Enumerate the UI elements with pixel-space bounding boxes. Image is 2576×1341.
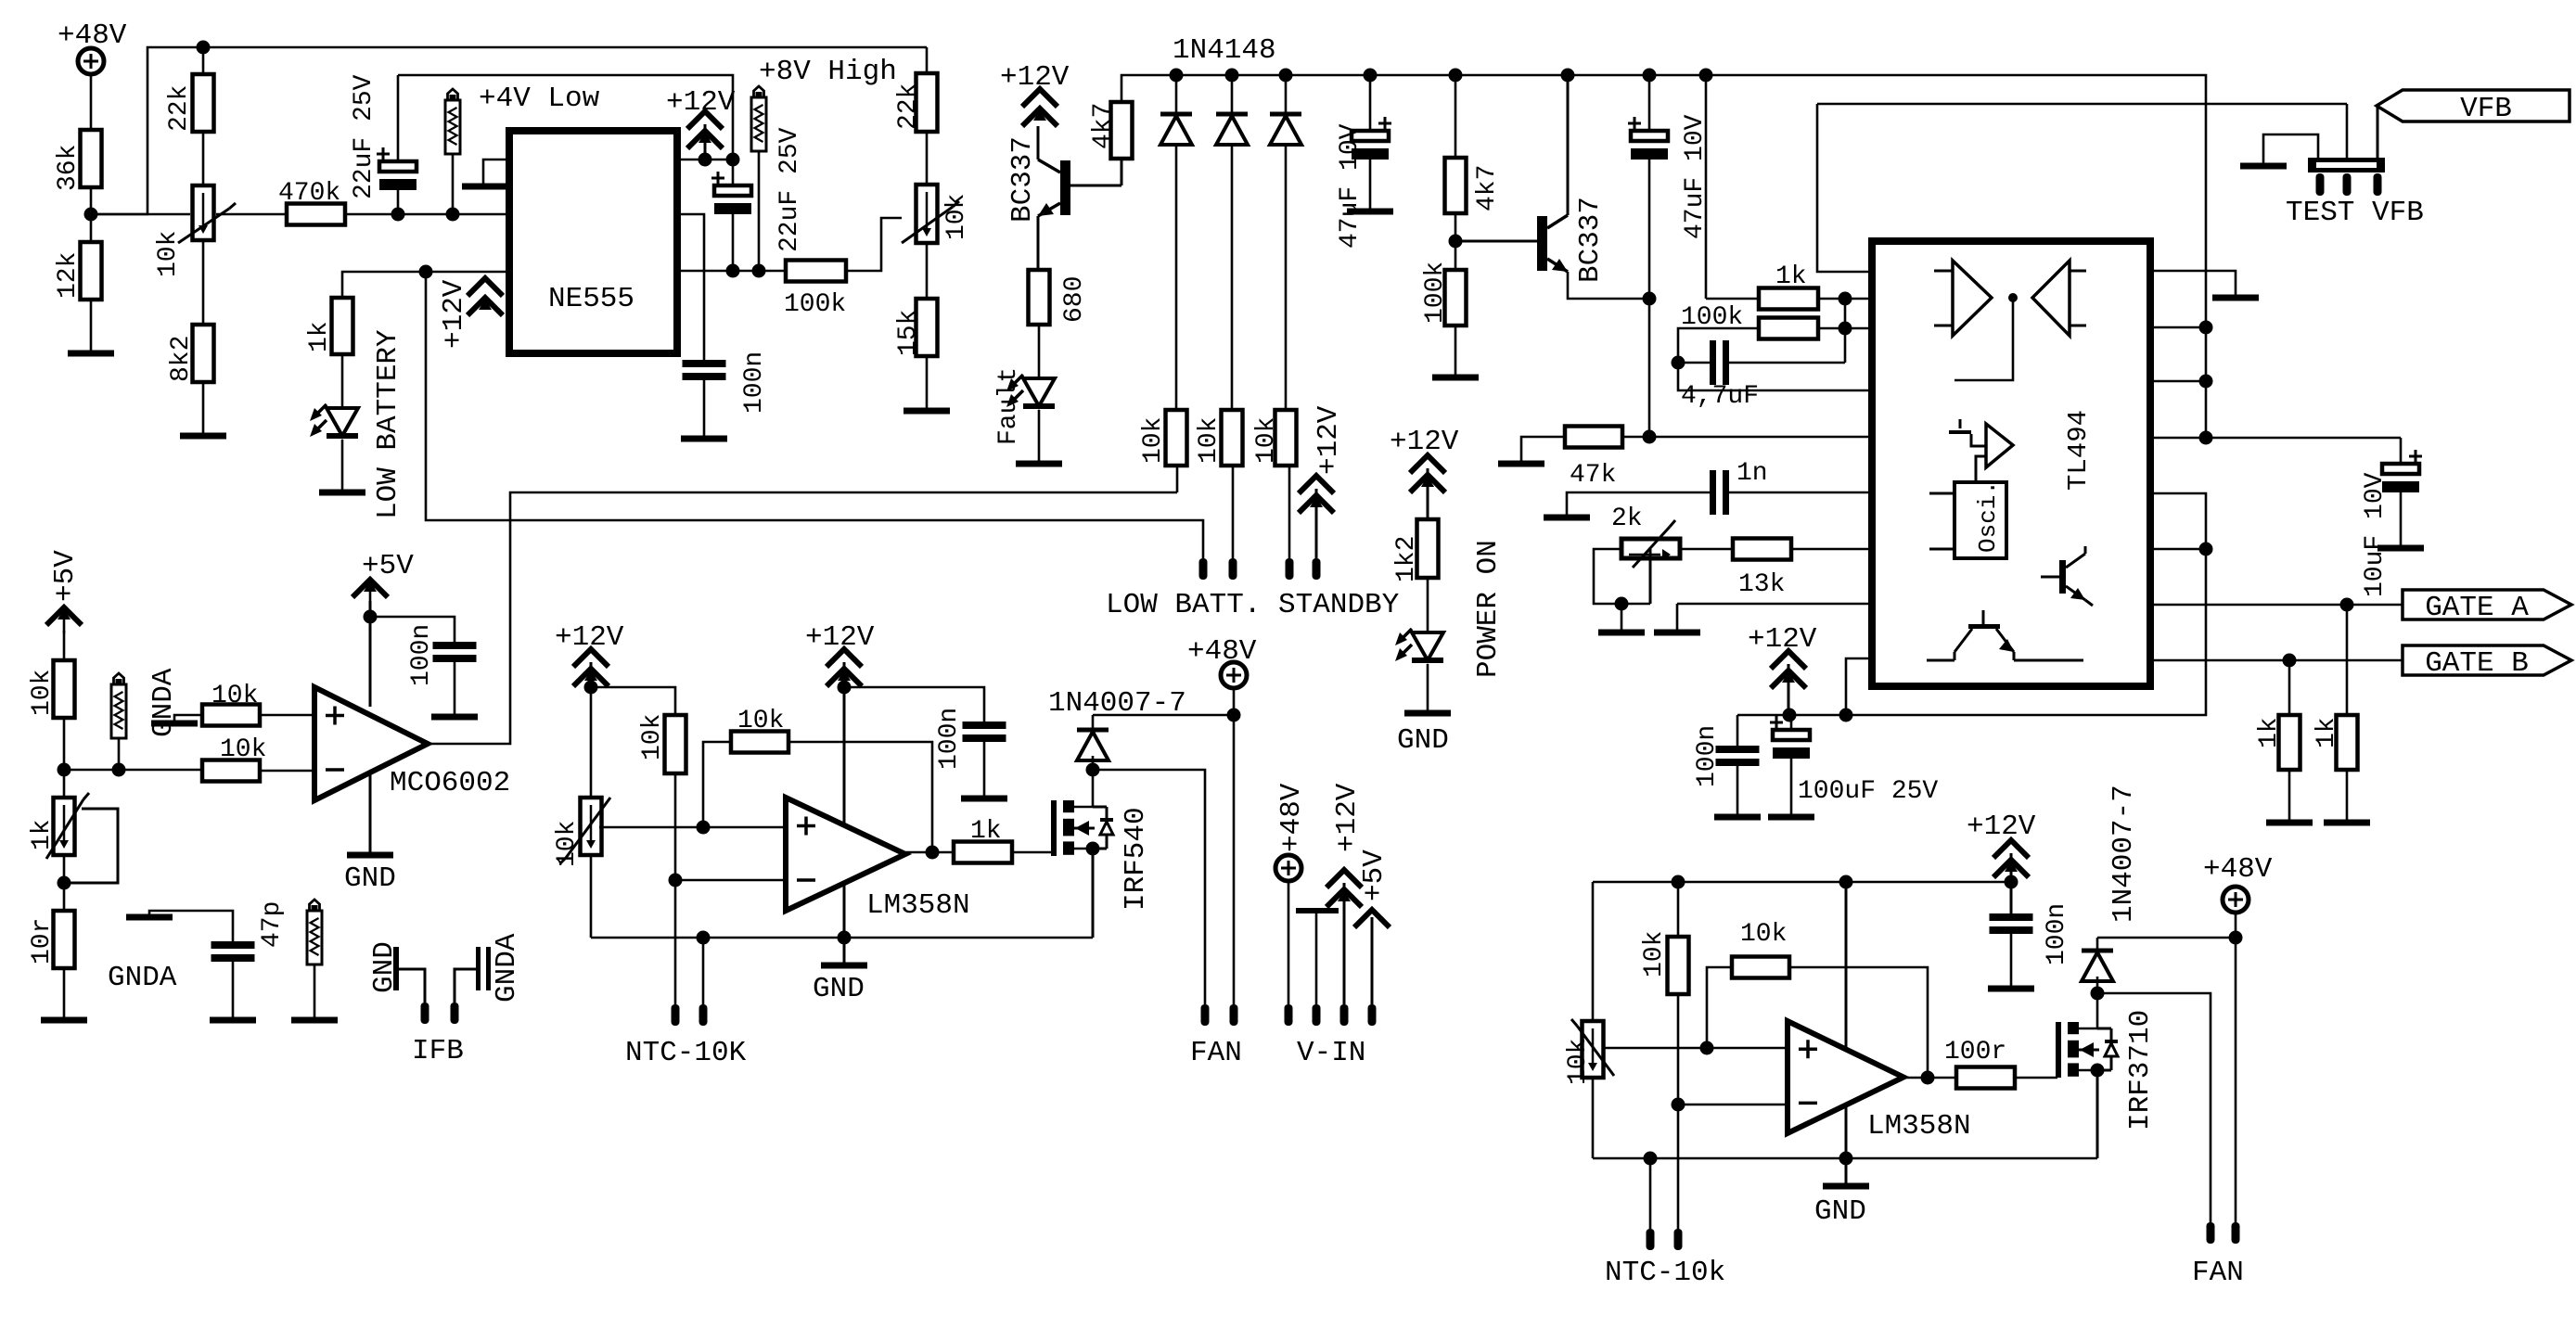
svg-text:100n: 100n — [1693, 725, 1722, 787]
svg-text:GATE A: GATE A — [2425, 592, 2529, 624]
svg-text:+12V: +12V — [1390, 426, 1459, 458]
svg-text:+12V: +12V — [1331, 783, 1364, 852]
svg-text:22k: 22k — [894, 83, 923, 130]
svg-text:1k2: 1k2 — [1392, 536, 1421, 582]
svg-text:+48V: +48V — [2203, 853, 2273, 886]
svg-text:12k: 12k — [54, 252, 83, 299]
svg-text:+48V: +48V — [1187, 635, 1257, 668]
svg-text:GND: GND — [344, 862, 396, 895]
svg-text:10k: 10k — [220, 735, 266, 764]
svg-text:Osci.: Osci. — [1974, 480, 2002, 553]
svg-text:10k: 10k — [154, 231, 183, 277]
svg-text:GNDA: GNDA — [108, 962, 177, 994]
svg-text:10k: 10k — [737, 707, 784, 735]
svg-text:47p: 47p — [258, 901, 287, 948]
svg-text:+12V: +12V — [1000, 61, 1070, 94]
svg-text:+48V: +48V — [58, 19, 127, 52]
svg-text:10k: 10k — [553, 821, 582, 867]
svg-text:LOW BATT. STANDBY: LOW BATT. STANDBY — [1106, 589, 1400, 621]
svg-text:NTC-10K: NTC-10K — [625, 1037, 747, 1069]
svg-text:+4V Low: +4V Low — [479, 83, 600, 115]
svg-text:47k: 47k — [1570, 461, 1616, 490]
svg-text:+12V: +12V — [1967, 811, 2036, 843]
svg-text:4k7: 4k7 — [1473, 165, 1502, 211]
svg-text:2k: 2k — [1611, 504, 1643, 533]
svg-text:10k: 10k — [28, 670, 57, 716]
svg-text:1n: 1n — [1737, 459, 1768, 488]
svg-text:10k: 10k — [1564, 1039, 1593, 1085]
svg-text:BC337: BC337 — [1574, 197, 1607, 283]
svg-text:1N4148: 1N4148 — [1173, 34, 1276, 67]
svg-text:100r: 100r — [1944, 1038, 2006, 1066]
svg-text:10k: 10k — [942, 194, 971, 240]
svg-text:FAN: FAN — [1190, 1037, 1242, 1069]
svg-text:8k2: 8k2 — [167, 336, 196, 382]
svg-text:IRF540: IRF540 — [1120, 807, 1152, 911]
svg-text:22k: 22k — [165, 85, 194, 132]
svg-text:GND: GND — [1397, 724, 1449, 757]
svg-text:1k: 1k — [970, 817, 1002, 846]
svg-text:100uF 25V: 100uF 25V — [1798, 777, 1938, 806]
svg-text:680: 680 — [1060, 276, 1089, 323]
svg-text:1k: 1k — [305, 321, 334, 352]
svg-text:LM358N: LM358N — [866, 889, 970, 922]
svg-text:1k: 1k — [2255, 717, 2284, 748]
svg-text:10k: 10k — [211, 682, 258, 710]
svg-text:MCO6002: MCO6002 — [390, 767, 510, 799]
svg-text:100n: 100n — [2043, 903, 2071, 965]
svg-text:13k: 13k — [1738, 570, 1785, 599]
svg-text:10r: 10r — [28, 918, 57, 964]
svg-text:10k: 10k — [1139, 417, 1168, 464]
svg-text:4,7uF: 4,7uF — [1681, 382, 1759, 411]
svg-text:22uF 25V: 22uF 25V — [350, 74, 378, 199]
svg-text:NTC-10k: NTC-10k — [1605, 1257, 1725, 1289]
svg-text:VFB: VFB — [2460, 93, 2512, 125]
svg-text:GND: GND — [813, 973, 865, 1005]
svg-text:100n: 100n — [935, 708, 964, 770]
svg-text:BC337: BC337 — [1006, 136, 1039, 223]
svg-text:15k: 15k — [894, 310, 923, 356]
svg-text:1k: 1k — [1775, 262, 1807, 291]
svg-text:FAN: FAN — [2192, 1257, 2244, 1289]
svg-text:+12V: +12V — [1748, 623, 1817, 656]
svg-text:LOW BATTERY: LOW BATTERY — [372, 329, 404, 519]
svg-text:LM358N: LM358N — [1867, 1110, 1971, 1143]
svg-text:100k: 100k — [1421, 262, 1450, 324]
svg-text:1k: 1k — [2313, 717, 2341, 748]
svg-text:100k: 100k — [784, 290, 846, 319]
svg-text:GNDA: GNDA — [491, 933, 523, 1003]
svg-text:NE555: NE555 — [548, 283, 634, 315]
svg-text:100n: 100n — [407, 624, 436, 686]
svg-text:10k: 10k — [1195, 417, 1224, 464]
svg-text:4k7: 4k7 — [1089, 103, 1118, 149]
svg-text:GATE B: GATE B — [2425, 647, 2529, 680]
svg-text:+5V: +5V — [1358, 849, 1391, 901]
svg-text:POWER ON: POWER ON — [1472, 540, 1505, 678]
svg-text:Fault: Fault — [994, 367, 1023, 445]
svg-text:TEST VFB: TEST VFB — [2286, 197, 2424, 229]
svg-text:+12V: +12V — [438, 279, 470, 349]
svg-text:+5V: +5V — [49, 550, 82, 602]
svg-text:GND: GND — [1814, 1195, 1866, 1228]
svg-text:10k: 10k — [638, 714, 667, 760]
svg-text:GNDA: GNDA — [147, 668, 180, 737]
svg-text:47uF 10V: 47uF 10V — [1336, 123, 1365, 249]
svg-text:10k: 10k — [1252, 417, 1281, 464]
svg-text:V-IN: V-IN — [1297, 1037, 1365, 1069]
svg-text:+12V: +12V — [666, 86, 736, 119]
svg-text:+48V: +48V — [1275, 783, 1308, 852]
svg-text:36k: 36k — [54, 145, 83, 191]
svg-text:10k: 10k — [1740, 920, 1787, 949]
svg-text:22uF 25V: 22uF 25V — [775, 127, 804, 252]
svg-text:100n: 100n — [740, 351, 769, 414]
svg-text:10uF 10V: 10uF 10V — [2361, 472, 2390, 597]
svg-text:+8V High: +8V High — [759, 56, 897, 88]
svg-text:1k: 1k — [28, 819, 57, 850]
svg-text:1N4007-7: 1N4007-7 — [2108, 785, 2140, 923]
svg-text:+12V: +12V — [1313, 405, 1345, 475]
svg-text:470k: 470k — [278, 179, 340, 208]
svg-text:+12V: +12V — [805, 621, 875, 654]
svg-text:10k: 10k — [1640, 931, 1669, 977]
svg-text:IFB: IFB — [412, 1035, 464, 1067]
svg-text:IRF3710: IRF3710 — [2124, 1010, 2157, 1130]
svg-text:TL494: TL494 — [2063, 410, 2094, 491]
